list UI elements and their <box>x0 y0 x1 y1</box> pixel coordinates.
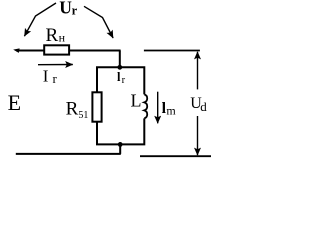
label U_d <box>190 95 207 114</box>
svg-text:r: r <box>53 71 58 86</box>
label R_H <box>46 25 66 46</box>
node dot (bottom junction) <box>118 142 123 147</box>
wire: mid rail with branch drops <box>97 67 144 94</box>
arrow U_r right branch <box>84 6 113 38</box>
svg-text:r: r <box>72 3 78 17</box>
node dot (top junction) <box>117 65 122 70</box>
label I_m <box>162 100 177 118</box>
svg-text:L: L <box>131 90 142 110</box>
svg-text:d: d <box>200 99 207 114</box>
svg-text:R: R <box>46 25 59 46</box>
label R_51 <box>66 99 89 121</box>
arrow I_r (current through R_H) <box>38 64 73 66</box>
arrow U_d down <box>197 116 199 155</box>
U_d bottom reference line <box>140 155 211 157</box>
label U_r <box>59 0 77 17</box>
U_d top reference line <box>144 50 200 52</box>
svg-text:E: E <box>8 90 21 115</box>
resistor R_H box <box>44 45 69 54</box>
svg-text:51: 51 <box>78 110 88 121</box>
label I_r (at junction) <box>117 70 126 86</box>
svg-text:r: r <box>122 75 126 86</box>
svg-text:R: R <box>66 99 79 120</box>
svg-text:U: U <box>59 0 72 17</box>
label I_r (under resistor) <box>43 66 58 86</box>
svg-text:l: l <box>117 70 121 84</box>
svg-text:н: н <box>59 31 66 45</box>
arrow U_d up <box>197 52 199 90</box>
arrowhead at left end of top wire <box>13 48 19 53</box>
wire: vertical drop from top wire to node <box>119 51 121 68</box>
wire: top horizontal <box>16 50 121 52</box>
arrow I_m <box>157 92 159 124</box>
arrow U_r left branch <box>24 3 56 36</box>
resistor R_51 box <box>92 92 101 121</box>
wire: bottom rail with branch rises <box>97 118 144 144</box>
svg-text:m: m <box>166 104 176 118</box>
inductor L coil <box>144 94 147 118</box>
wire: bottom horizontal <box>16 153 121 155</box>
wire: connector from bottom junction down to bottom wire <box>119 144 121 154</box>
svg-text:I: I <box>43 66 49 85</box>
